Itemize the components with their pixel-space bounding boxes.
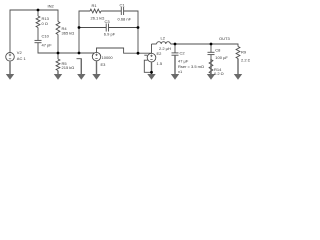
node junction at 58,53 (57, 52, 60, 55)
resistor R4 (56, 22, 60, 35)
svg-text:0 Ω: 0 Ω (42, 21, 48, 26)
E2 source circle (147, 53, 156, 62)
node junction at 138,53.2 (137, 52, 140, 55)
wire R1 to C1 (101, 10, 121, 12)
wire L2 left (152, 43, 157, 45)
ground at x=238 (237, 59, 238, 75)
wire C3 row right (109, 27, 139, 29)
svg-text:365 kΩ: 365 kΩ (62, 30, 75, 35)
wire C8 to R14 (210, 55, 212, 60)
node junction at 175,44 (174, 43, 177, 46)
svg-text:0.68 nF: 0.68 nF (118, 16, 132, 21)
capacitor C8 (208, 51, 215, 53)
svg-text:R1: R1 (92, 3, 98, 8)
svg-text:47 µF: 47 µF (178, 59, 189, 64)
svg-text:100 µF: 100 µF (215, 55, 228, 60)
svg-text:C10: C10 (42, 34, 50, 39)
wire C8 branch down (210, 44, 212, 52)
svg-text:E3: E3 (101, 62, 107, 67)
ground at x=81.3 (81, 59, 82, 75)
capacitor C3 (105, 24, 107, 32)
svg-text:2.2 Ω: 2.2 Ω (241, 57, 250, 62)
node junction at 211,44 (210, 43, 213, 46)
svg-text:C8: C8 (215, 48, 221, 53)
plus sign of source at x=151.5 (150, 55, 152, 57)
svg-text:E2: E2 (157, 51, 163, 56)
wire C2 to ground (174, 55, 176, 74)
svg-text:L2: L2 (161, 36, 166, 41)
node junction at 79,27.5 (78, 26, 81, 29)
ground at x=211 (210, 59, 211, 74)
wire R9 to ground (237, 59, 239, 75)
node junction at 79,53 (78, 52, 81, 55)
svg-text:10000: 10000 (102, 55, 114, 60)
node junction at 38,10 (37, 9, 40, 12)
E3 ground wire (96, 61, 98, 74)
svg-text:R9: R9 (241, 50, 247, 55)
E3 output wire up and over (97, 48, 152, 53)
node junction at 138,27.5 (137, 26, 140, 29)
plus sign of source at x=96.5 (95, 54, 97, 56)
inductor L2 (157, 42, 171, 44)
ground at x=175 (174, 55, 175, 74)
wire R13 to C10 (37, 28, 39, 41)
E2 bottom to ground (151, 62, 153, 74)
E2 control lower loop (144, 60, 151, 72)
ground at x=10 (9, 62, 10, 74)
ground at x=58 (57, 71, 58, 75)
svg-text:x1: x1 (178, 69, 183, 74)
wire box left column (79, 11, 90, 53)
wire C10 to node row y53 (38, 43, 95, 53)
wire C2 branch down (174, 44, 176, 53)
resistor R9 (236, 47, 240, 59)
resistor R1 (90, 9, 101, 13)
svg-text:C1: C1 (120, 3, 126, 8)
svg-text:0.2 Ω: 0.2 Ω (214, 71, 224, 76)
stub wire to ground left of E3 (77, 59, 82, 74)
wire top from V2 to R4 column (10, 10, 58, 52)
resistor R5 (57, 53, 59, 59)
svg-text:26.1 kΩ: 26.1 kΩ (91, 15, 105, 20)
svg-text:C2: C2 (180, 51, 186, 56)
wire L2 to R9 corner (171, 44, 239, 47)
capacitor C1 (120, 7, 122, 15)
V2 bottom to ground (9, 61, 11, 74)
wire C3 row left (79, 27, 106, 29)
capacitor C10 (35, 39, 42, 41)
svg-text:IN2: IN2 (48, 3, 55, 8)
wire R4 bottom (57, 35, 59, 54)
voltage source V2 circle (6, 53, 15, 62)
wire R13 branch down (37, 10, 39, 16)
svg-text:V2: V2 (17, 50, 23, 55)
node junction at 151.5,72.3 (150, 71, 153, 74)
plus sign of source at x=10 (9, 54, 11, 56)
E2 top wire to L2 (151, 44, 153, 53)
resistor R13 (36, 16, 40, 28)
svg-text:215 kΩ: 215 kΩ (62, 65, 75, 70)
svg-text:OUT3: OUT3 (219, 36, 230, 41)
wire C1 to box right column (124, 11, 138, 53)
ground at x=151.5 (151, 62, 152, 75)
wire R5 to ground (57, 71, 59, 75)
resistor R14 (209, 60, 213, 74)
svg-text:1.5: 1.5 (157, 61, 163, 66)
svg-text:AC 1: AC 1 (17, 56, 27, 61)
svg-text:C3: C3 (105, 19, 111, 24)
capacitor C2 (172, 52, 179, 54)
op-amp E3 source circle (92, 52, 100, 60)
svg-text:47 pF: 47 pF (42, 43, 53, 48)
ground at x=96.5 (96, 61, 97, 75)
svg-text:6.9 pF: 6.9 pF (104, 31, 116, 36)
E2 control stub upper (144, 54, 147, 56)
